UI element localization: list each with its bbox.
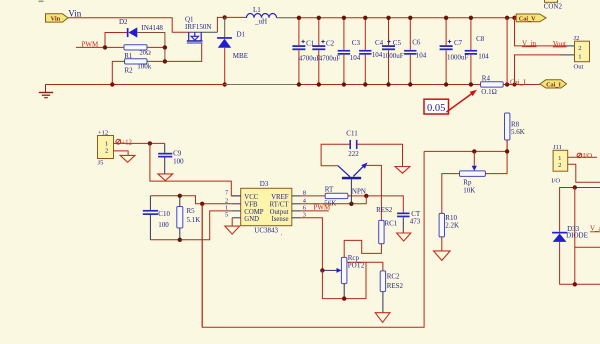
wire: R1 right	[147, 46, 165, 48]
svg-text:100k: 100k	[137, 63, 152, 71]
diode D2	[119, 18, 163, 37]
svg-text:VCC: VCC	[244, 194, 258, 201]
junction C3 top	[342, 16, 346, 20]
potentiometer Rcp wiper arrow	[337, 268, 342, 273]
junction R1 right	[163, 45, 167, 49]
svg-text:10K: 10K	[463, 187, 475, 195]
svg-text:RT: RT	[325, 185, 334, 193]
capacitor C9	[158, 143, 184, 173]
svg-text:Cai_V: Cai_V	[519, 15, 536, 22]
svg-text:C3: C3	[352, 39, 361, 47]
potentiometer Rp wiper arrow	[472, 166, 477, 171]
svg-text:2: 2	[105, 147, 108, 154]
wire: return bus middle	[225, 84, 299, 86]
wire: J5 pin2 to ground	[114, 151, 129, 156]
junction C8 bottom	[469, 82, 473, 86]
svg-text:Cai_I: Cai_I	[510, 78, 526, 86]
junction R8 bottom/wiper row	[505, 149, 509, 153]
svg-text:1: 1	[578, 54, 581, 61]
svg-text:4700uF: 4700uF	[299, 55, 321, 63]
junction C6 top	[408, 16, 412, 20]
transistor Q NPN	[338, 163, 368, 204]
wire: to RC2 top	[347, 262, 383, 271]
wire: Output pin6 stub	[301, 210, 329, 212]
artifact top-left	[39, 1, 44, 3]
svg-text:Cai_I: Cai_I	[546, 81, 561, 88]
wire: branch to edge	[575, 246, 600, 248]
resistor R8	[505, 113, 525, 140]
resistor R2	[125, 59, 152, 75]
wire: R2 left down to bus	[112, 61, 124, 84]
wire: PWM net	[76, 46, 124, 48]
svg-text:NPN: NPN	[352, 188, 366, 196]
wire: rail down to R4	[506, 18, 508, 85]
ground (R10)	[434, 251, 451, 261]
wire: pin4 RT/CT row	[301, 203, 367, 205]
pin 5	[225, 211, 241, 218]
wire: RC2 bottom to ground	[382, 292, 384, 313]
junction C5 top	[386, 16, 390, 20]
ground (CT)	[397, 233, 411, 241]
wire: R8 bottom to wiper row	[424, 140, 507, 151]
capacitor C3	[338, 18, 361, 85]
wire: J11 pin1 I/O net	[568, 156, 597, 158]
junction C7 bottom	[444, 82, 448, 86]
svg-text:R4: R4	[482, 74, 491, 82]
ground (J5)	[120, 155, 135, 162]
svg-text:104: 104	[372, 51, 383, 59]
resistor R10	[439, 213, 459, 237]
svg-text:2.2K: 2.2K	[445, 222, 459, 230]
port Cai_V	[515, 14, 547, 22]
svg-text:C5: C5	[393, 39, 402, 47]
svg-text:RC2: RC2	[387, 272, 400, 280]
svg-text:2: 2	[578, 45, 581, 52]
svg-text:1: 1	[558, 155, 561, 162]
resistor R5	[177, 196, 201, 240]
wire: VFB feedback drop	[201, 204, 203, 327]
junction switch node	[223, 15, 227, 19]
svg-text:RES2: RES2	[387, 282, 404, 290]
svg-text:+12: +12	[98, 129, 108, 136]
svg-text:20Ω: 20Ω	[140, 50, 152, 57]
junction R4 right	[505, 82, 509, 86]
svg-text:IN4148: IN4148	[142, 24, 164, 32]
ground earth (left)	[39, 85, 53, 98]
resistor RC2	[380, 271, 403, 292]
svg-text:222: 222	[348, 150, 359, 158]
capacitor C10	[143, 196, 171, 240]
svg-text:C7: C7	[454, 39, 463, 47]
connector CON2 (cut at top)	[544, 0, 563, 11]
capacitor CT	[397, 210, 421, 233]
svg-text:DIODE: DIODE	[566, 232, 588, 240]
wire: D33 bottom	[560, 242, 600, 284]
junction PWM/R1	[103, 45, 107, 49]
svg-text:J5: J5	[98, 160, 105, 167]
resistor RT	[324, 185, 348, 207]
svg-text:RT/CT: RT/CT	[270, 202, 290, 209]
junction R5 bottom	[178, 238, 182, 242]
junction rail/Cai_V	[512, 16, 516, 20]
svg-text:D1: D1	[237, 31, 246, 39]
svg-text:104: 104	[478, 53, 489, 61]
wire: VREF to RT	[301, 195, 325, 197]
pin 8	[292, 189, 306, 196]
capacitor C11	[346, 130, 359, 158]
wire: Rp right up to R8 bottom	[485, 140, 507, 174]
junction C1 top	[297, 16, 301, 20]
capacitor C7	[440, 18, 469, 85]
svg-text:IRF150N: IRF150N	[185, 23, 211, 31]
pin 6	[292, 204, 306, 211]
junction RT/CT node	[364, 194, 368, 198]
pin 3	[292, 211, 306, 218]
svg-text:J11: J11	[553, 144, 562, 151]
svg-text:MBE: MBE	[233, 52, 248, 60]
svg-text:C6: C6	[412, 39, 421, 47]
junction J2 pin1 tap	[513, 83, 517, 87]
junction D1 bus	[223, 82, 227, 86]
potentiometer Rcp	[341, 254, 365, 284]
wire: comp network bottom to COMP pin1	[150, 211, 232, 240]
net label V_a (cut)	[590, 225, 600, 233]
svg-text:_uH: _uH	[254, 17, 267, 25]
capacitor C2	[312, 18, 340, 85]
connector J2	[574, 35, 590, 71]
junction rail/R8 column	[505, 16, 509, 20]
junction R2-left bus	[110, 82, 114, 86]
wire: GND pin5 to ground symbol	[231, 218, 233, 226]
junction wiper node	[472, 149, 476, 153]
wire: J11 pin2 to right edge	[568, 164, 600, 182]
net label Vout	[553, 40, 567, 48]
svg-text:Rcp: Rcp	[348, 254, 360, 262]
wire: R2 right to Q1 bottom pin	[147, 43, 202, 61]
wire: RC1 bottom to Rcp top	[344, 240, 381, 257]
svg-text:L1: L1	[253, 6, 261, 14]
diode D33	[552, 225, 588, 242]
svg-text:104: 104	[416, 51, 427, 59]
net label V_in	[522, 40, 537, 48]
resistor RC1	[376, 206, 398, 244]
junction bottom right	[573, 282, 577, 286]
wire: right branch vertical	[574, 188, 576, 285]
svg-text:Rp: Rp	[463, 179, 472, 187]
net label I/O	[577, 153, 592, 160]
svg-text:5.1K: 5.1K	[187, 216, 201, 224]
svg-text:1000uF: 1000uF	[382, 52, 404, 60]
junction Isense/wiper	[320, 268, 324, 272]
svg-text:C10: C10	[158, 210, 170, 218]
svg-text:J2: J2	[574, 35, 580, 42]
pin 2	[225, 197, 241, 204]
svg-text:5.6K: 5.6K	[511, 128, 525, 136]
potentiometer Rp	[460, 171, 486, 195]
wire: tall feedback vertical	[202, 151, 424, 327]
connector J5	[98, 129, 114, 166]
junction VFB	[200, 202, 204, 206]
junction Rcp bottom	[342, 296, 346, 300]
wire: comp network top	[150, 196, 232, 204]
svg-text:0.05: 0.05	[427, 103, 445, 114]
port Vin	[46, 14, 69, 23]
svg-text:Vin: Vin	[51, 16, 61, 23]
capacitor C1	[292, 18, 320, 85]
svg-text:Output: Output	[270, 209, 289, 216]
junction R5 top	[178, 194, 182, 198]
junction C4 bottom	[363, 82, 367, 86]
wire: L1 to cap bank	[277, 17, 299, 19]
wire: Isense pin3 to divider	[301, 218, 323, 271]
svg-text:C8: C8	[476, 35, 485, 43]
svg-text:5: 5	[225, 211, 228, 218]
capacitor C5	[382, 18, 404, 85]
wire: +12 to VCC pin7	[150, 143, 241, 196]
wire: D33 top net	[560, 188, 600, 232]
resistor R1	[124, 45, 151, 60]
svg-text:473: 473	[410, 218, 421, 226]
svg-text:1: 1	[105, 140, 108, 147]
svg-text:CON2: CON2	[544, 3, 563, 11]
svg-text:100: 100	[158, 221, 169, 229]
junction C4 top	[363, 16, 367, 20]
wire: D1 anode to bus	[224, 48, 226, 85]
svg-text:100: 100	[173, 158, 184, 166]
svg-text:+12: +12	[121, 139, 132, 146]
pin 4	[292, 197, 307, 204]
junction C2 top	[317, 16, 321, 20]
svg-text:POT2: POT2	[348, 262, 365, 270]
net label +12	[116, 139, 133, 146]
ground (RC2)	[375, 313, 390, 323]
wire: Rcp bottom lead	[343, 284, 345, 299]
junction C2 bottom	[317, 82, 321, 86]
svg-text:C11: C11	[346, 130, 358, 138]
wire: Rcp bottom row	[322, 262, 366, 298]
wire: emitter to RC1	[365, 165, 381, 220]
junction C3 bottom	[342, 82, 346, 86]
wire: Q1 right pin up to rail node	[217, 17, 224, 32]
svg-text:Out: Out	[574, 64, 584, 71]
diode D1	[217, 17, 248, 60]
svg-text:Isense: Isense	[272, 216, 289, 223]
svg-text:COMP: COMP	[244, 209, 263, 216]
annotation 0.05 box with arrow	[424, 90, 477, 115]
wire: J2 pin2 net	[515, 18, 567, 46]
svg-text:D3: D3	[260, 180, 269, 188]
svg-text:O.1Ω: O.1Ω	[481, 88, 497, 96]
svg-text:PWM: PWM	[314, 204, 332, 212]
ground (C11)	[395, 167, 410, 174]
junction base/pin4	[349, 202, 353, 206]
capacitor C4	[359, 18, 384, 85]
ground (C9)	[158, 174, 173, 181]
svg-text:8: 8	[303, 189, 306, 196]
wire: D2 to gate column	[137, 33, 165, 62]
svg-text:I/O: I/O	[551, 178, 560, 185]
junction C5 bottom	[386, 82, 390, 86]
wire: RT right to CT column	[348, 196, 403, 213]
wire: R10 to ground	[441, 237, 443, 251]
junction C8 top	[469, 16, 473, 20]
pin 7	[225, 189, 241, 196]
svg-text:104: 104	[350, 54, 361, 62]
resistor R4	[481, 74, 504, 96]
pin 1	[225, 204, 241, 211]
wire: J5 pin1 +12	[114, 142, 165, 144]
junction C7 top	[444, 16, 448, 20]
svg-text:UC3843: UC3843	[254, 226, 278, 234]
svg-text:Vin: Vin	[68, 8, 81, 18]
svg-text:VFB: VFB	[244, 202, 258, 209]
wire: RT node down to pin4 row	[365, 196, 367, 204]
svg-text:,: ,	[281, 232, 282, 237]
connector J11	[551, 144, 567, 185]
capacitor C6	[404, 18, 427, 85]
port Cai_I	[540, 80, 567, 89]
wire: return bus left	[46, 84, 225, 86]
wire: wiper drop	[473, 151, 475, 166]
junction C6 bottom	[408, 82, 412, 86]
wire: output rail	[299, 17, 515, 19]
svg-text:R5: R5	[187, 207, 196, 215]
wire: rail to L1	[225, 16, 247, 18]
wire: C11 right to ground	[358, 144, 403, 166]
pin: J2 pin2 stub	[566, 45, 575, 47]
svg-text:RES2: RES2	[376, 206, 393, 214]
svg-text:GND: GND	[244, 216, 259, 223]
transistor Q1 IRF150N	[185, 16, 217, 44]
inductor L1	[247, 6, 277, 26]
capacitor C8	[465, 18, 490, 85]
junction R2 right	[163, 59, 167, 63]
svg-text:4700uF: 4700uF	[319, 55, 341, 63]
wire: return bus right	[299, 84, 481, 86]
pin: J2 pin1 stub	[561, 54, 575, 56]
junction +12	[148, 141, 152, 145]
svg-text:R2: R2	[125, 67, 134, 75]
svg-text:2: 2	[558, 162, 561, 169]
svg-text:C2: C2	[326, 39, 335, 47]
svg-text:VREF: VREF	[271, 194, 289, 201]
svg-text:2: 2	[225, 197, 228, 204]
svg-text:RC1: RC1	[385, 220, 398, 228]
wire: R4 right to port	[503, 84, 540, 86]
junction D33 top net	[573, 185, 577, 189]
svg-text:C9: C9	[173, 150, 182, 158]
svg-text:I/O: I/O	[583, 153, 592, 160]
svg-text:3: 3	[303, 211, 306, 218]
IC D3 UC3843	[241, 180, 292, 236]
junction C1 bottom	[297, 82, 301, 86]
svg-text:D2: D2	[119, 18, 128, 26]
wire: C11 left to collector	[321, 144, 349, 165]
wire: PWM junction up to D2	[105, 33, 127, 48]
wire: Vin top rail	[68, 18, 188, 32]
wire: J2 pin1 net	[515, 55, 561, 85]
ground (D3)	[225, 226, 240, 234]
wire: Rp left to R10	[442, 174, 460, 214]
wire: wiper arm	[322, 269, 337, 271]
